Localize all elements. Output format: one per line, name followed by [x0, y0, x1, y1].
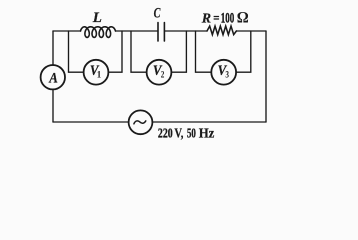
- wire top-left segment: [53, 30, 81, 32]
- capacitor C right plate: [163, 23, 165, 42]
- svg-text:R: R: [201, 12, 211, 27]
- wire V1 bracket right: [109, 31, 123, 72]
- svg-text:50: 50: [187, 125, 196, 140]
- svg-text:2: 2: [161, 70, 165, 80]
- wire V3 bracket right: [236, 31, 251, 72]
- wire bottom left of source: [53, 121, 129, 123]
- svg-text:100: 100: [221, 11, 235, 27]
- svg-text:3: 3: [225, 70, 229, 80]
- svg-text:220: 220: [158, 125, 173, 140]
- wire right vertical: [265, 31, 267, 122]
- ammeter A circle: [41, 65, 65, 89]
- svg-text:V,: V,: [174, 125, 183, 140]
- voltmeter V3 circle: [211, 60, 236, 85]
- svg-text:Ω: Ω: [237, 10, 249, 27]
- svg-text:A: A: [48, 71, 57, 87]
- svg-text:L: L: [92, 10, 102, 26]
- wire V1 bracket left: [69, 31, 84, 72]
- svg-text:1: 1: [97, 70, 102, 80]
- voltmeter V1 circle: [84, 60, 109, 85]
- inductor L coil: [81, 27, 116, 38]
- voltmeter V2 circle: [147, 60, 172, 85]
- svg-text:Hz: Hz: [199, 125, 215, 140]
- resistor R zigzag: [207, 26, 236, 34]
- wire top-right segment: [236, 30, 266, 32]
- wire top middle L-to-C: [116, 30, 158, 32]
- wire V3 bracket left: [196, 31, 212, 72]
- svg-text:C: C: [154, 6, 161, 22]
- wire left vertical above ammeter: [52, 31, 54, 65]
- ac source circle: [129, 110, 153, 134]
- wire V2 bracket right: [172, 31, 187, 72]
- wire left vertical below ammeter: [52, 89, 54, 122]
- svg-text:=: =: [213, 11, 219, 26]
- capacitor C left plate: [157, 23, 159, 42]
- wire V2 bracket left: [131, 31, 147, 72]
- wire bottom right of source: [152, 121, 266, 123]
- ac source tilde: [134, 121, 146, 124]
- wire top C-to-R: [165, 30, 207, 32]
